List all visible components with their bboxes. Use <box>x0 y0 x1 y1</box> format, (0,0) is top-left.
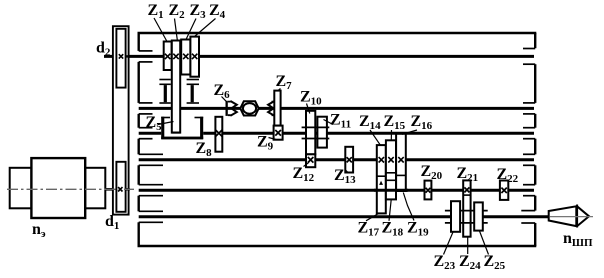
housing top <box>138 32 537 34</box>
leader Z25 <box>480 231 489 255</box>
shaft IV <box>139 158 534 161</box>
leader Z12 <box>304 162 310 166</box>
left wall bearings <box>139 51 163 222</box>
x marks Z14 Z15 Z16 <box>379 157 404 162</box>
leader Z9 <box>269 138 277 140</box>
gear Z1 <box>164 42 172 71</box>
shaft V visible through Z17 Z18 blocks <box>374 189 408 192</box>
x mark Z8 <box>216 130 223 137</box>
x mark Z13 <box>347 157 352 162</box>
x mark Z20 <box>426 188 431 193</box>
gear Z7 <box>274 91 280 126</box>
gear Z4 <box>190 37 199 77</box>
left gear on shaft II <box>159 80 170 104</box>
leader Z11 <box>324 120 334 125</box>
leader Z7 <box>278 89 281 92</box>
gear block Z14/Z17 <box>377 145 386 213</box>
shaft V <box>139 189 534 192</box>
left wall segments <box>137 33 139 246</box>
shaft II <box>139 107 172 110</box>
leader Z2 <box>175 19 178 41</box>
shaft III <box>139 132 162 135</box>
coupling right half <box>268 101 274 116</box>
gear Z3 <box>181 40 190 75</box>
gear Z5 stem bottom <box>172 132 180 134</box>
motor right cap <box>85 168 105 209</box>
leader Z1 <box>154 18 167 42</box>
leader Z15 <box>390 130 392 140</box>
gear Z21 with Z24 column <box>463 180 470 236</box>
detent mark <box>379 181 383 185</box>
gear Z12 <box>306 154 315 167</box>
x mark pulley d1 <box>118 187 122 191</box>
coupling link <box>236 107 240 109</box>
spindle block hub lines <box>445 210 488 212</box>
gear Z11 <box>317 117 327 148</box>
motor left cap <box>10 168 32 209</box>
pulley d2 <box>116 29 125 88</box>
x mark Z12 <box>308 157 314 163</box>
x mark Z22 <box>501 188 506 193</box>
gear Z23 <box>451 201 460 232</box>
leader Z19 <box>403 193 414 221</box>
motor n_e centerline <box>7 188 134 190</box>
gear Z13 <box>345 147 353 173</box>
gear Z2 column with Z5 stem <box>172 41 180 133</box>
leader Z23 <box>444 232 454 255</box>
leader Z14 <box>370 130 381 145</box>
leader Z6 <box>222 97 227 102</box>
motor shaft stub right of pulley <box>126 188 130 190</box>
gear block Z15/Z18 <box>386 140 396 199</box>
housing bottom <box>138 245 537 247</box>
x marks gears Z1-Z4 on shaft I <box>165 54 198 59</box>
leader Z3 <box>186 19 196 40</box>
belt <box>113 26 129 214</box>
x mark Z21 <box>464 187 469 192</box>
x mark Z9 <box>275 130 281 136</box>
leader Z13 <box>345 170 349 174</box>
leader Z18 <box>389 200 391 221</box>
gear Z20 <box>425 181 432 200</box>
leader Z5 <box>158 122 174 125</box>
spindle nose cone <box>549 206 577 226</box>
leader Z24 <box>467 237 469 254</box>
gear Z10 <box>306 111 315 155</box>
motor shaft <box>105 188 116 191</box>
gear Z22 <box>500 181 508 200</box>
motor body <box>31 158 85 218</box>
gear Z25 <box>474 202 483 230</box>
cup gear on shaft III (internal mesh with Z5) <box>161 117 164 139</box>
x mark pulley d2 <box>119 54 123 58</box>
coupling left half Z6 <box>226 101 228 116</box>
pulley d1 <box>116 162 125 212</box>
right gear on shaft II <box>187 80 199 104</box>
right wall segments <box>534 33 536 246</box>
shaft I stub right of pulley <box>126 55 130 57</box>
gear block Z16/Z19 <box>396 134 406 191</box>
gear Z8 <box>215 117 222 152</box>
right wall bearings <box>521 49 535 224</box>
leader Z10 <box>307 104 310 114</box>
leader Z4 <box>195 19 216 37</box>
leader Z17 <box>366 214 379 221</box>
shaft VI spindle <box>139 215 452 218</box>
gear Z9 <box>274 126 283 140</box>
leader Z16 <box>402 130 417 134</box>
shaft I <box>104 55 534 58</box>
hub lines Z10 Z11 block <box>302 126 330 128</box>
